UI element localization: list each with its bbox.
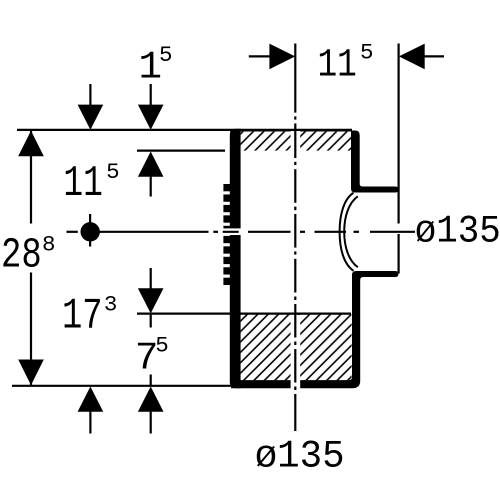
svg-text:5: 5: [155, 333, 169, 359]
svg-text:5: 5: [159, 42, 173, 68]
svg-text:ø135: ø135: [255, 435, 345, 479]
svg-text:11: 11: [63, 160, 103, 209]
svg-text:5: 5: [360, 40, 374, 66]
svg-text:8: 8: [42, 232, 56, 258]
svg-text:5: 5: [106, 159, 120, 185]
svg-text:ø135: ø135: [415, 208, 500, 253]
svg-text:17: 17: [62, 292, 103, 342]
svg-text:3: 3: [104, 291, 118, 317]
svg-text:28: 28: [1, 232, 42, 280]
svg-text:11: 11: [318, 44, 357, 89]
